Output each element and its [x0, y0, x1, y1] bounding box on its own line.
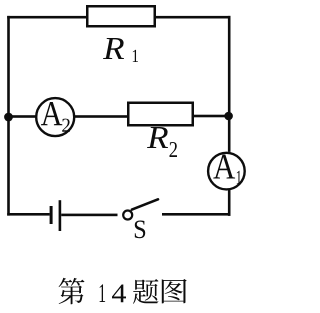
subscript 2 of ammeter A2 [62, 119, 70, 132]
caption character 图 [162, 279, 187, 303]
switch S: lever arm [132, 199, 158, 209]
wire: right rail lower segment (A1 to bottom-right corner) [228, 189, 231, 216]
label R2 [147, 127, 168, 148]
wire: bottom rail right segment (corner to switch) [162, 213, 231, 216]
caption digit 4 [112, 285, 126, 303]
wire: top rail, left segment to R1 [7, 16, 87, 19]
caption character 题 [133, 279, 158, 304]
wire: left rail (top-left corner down to bottom-left corner) [7, 16, 10, 216]
wire: right rail upper segment (top-right corner to ammeter A1) [228, 16, 231, 152]
battery: long plate (positive terminal) [59, 200, 62, 231]
node: right junction dot [224, 112, 233, 121]
node: left junction dot [4, 113, 13, 122]
wire: bottom rail left segment (battery to bottom-left corner) [7, 213, 49, 216]
label R1 [103, 38, 124, 59]
ammeter A2 (circle) [36, 98, 74, 136]
battery: short thick plate (negative terminal) [50, 206, 53, 224]
label S of switch [135, 221, 145, 239]
wire: top rail, right segment from R1 to top-right corner [156, 16, 231, 19]
wire: bottom rail middle segment (switch to battery) [61, 214, 117, 217]
label A of ammeter A1 [213, 155, 235, 179]
caption character 第 [59, 278, 85, 304]
wire: middle rail from R2 to right junction dot [193, 115, 230, 118]
switch S: pivot circle [123, 211, 132, 220]
label A of ammeter A2 [41, 102, 62, 125]
wire: middle rail from left dot to A2 [9, 115, 37, 118]
subscript 1 of ammeter A1 [237, 171, 241, 184]
resistor R2 (box) [128, 103, 193, 126]
resistor R1 (box) [87, 6, 155, 26]
wire: middle rail from A2 to R2 [74, 115, 128, 118]
caption digit 1 [100, 284, 106, 302]
ammeter A1 (circle) [208, 153, 245, 190]
